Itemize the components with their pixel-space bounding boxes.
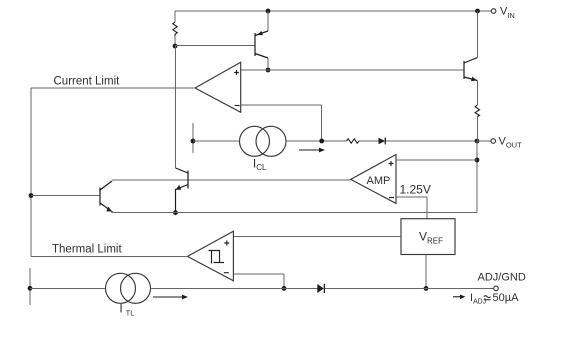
svg-text:ADJ/GND: ADJ/GND <box>478 272 526 284</box>
node U3 minus junction dot <box>282 286 287 291</box>
op-amp U1 current limit comparator <box>195 62 241 112</box>
wire D2 to ADJ terminal <box>324 287 493 289</box>
node Q1 collector junction dot <box>266 68 271 73</box>
resistor R2 <box>347 139 359 143</box>
node I_TL stub dot <box>28 286 33 291</box>
node I_CL output junction dot <box>319 139 324 144</box>
svg-text:Current Limit: Current Limit <box>54 76 121 88</box>
wire stub to current source I_TL <box>30 287 106 289</box>
svg-text:AMP: AMP <box>367 175 391 187</box>
wire U1 - input <box>241 104 322 106</box>
node left bus junction dot <box>29 193 34 198</box>
node resistor bottom junction dot <box>173 44 178 49</box>
resistor R1 <box>173 22 177 36</box>
wire AMP - input <box>396 196 427 198</box>
current source I_TL <box>106 273 151 303</box>
terminal V_IN open circle <box>491 9 496 14</box>
symbol approx-equal <box>484 296 491 300</box>
wire D1 to V_OUT node <box>385 140 477 142</box>
node ADJ junction dot <box>424 286 429 291</box>
wire U3 - input <box>233 273 284 275</box>
transistor Q1 (PNP) <box>255 31 268 58</box>
transistor Q4 pass device <box>464 58 477 82</box>
current source I_CL <box>240 126 287 156</box>
wire Q1 collector down to node <box>267 58 269 68</box>
arrow I_TL current direction <box>153 295 188 300</box>
transistor Q2 <box>100 181 112 213</box>
wire top supply rail <box>175 10 478 12</box>
wire V_OUT terminal lead <box>477 140 491 142</box>
wire resistor R1 bottom to node <box>174 36 176 46</box>
wire V_REF left to TL + input <box>233 236 401 238</box>
wire base bus to AMP output <box>112 179 351 181</box>
wire U3 output thermal limit line <box>31 255 187 257</box>
resistor R3 <box>475 105 479 117</box>
node V_OUT junction dot <box>475 139 480 144</box>
wire U1 output (current limit line) <box>31 87 195 89</box>
arrow I_ADJ direction <box>453 295 466 300</box>
wire stub to current source I_CL <box>193 140 240 142</box>
wire I_TL to ADJ line <box>151 287 285 289</box>
block V_REF <box>401 219 455 255</box>
wire from rail down to resistor R1 <box>174 11 176 22</box>
node AMP + junction dot <box>475 158 480 163</box>
wire I_TL left stub <box>29 268 31 305</box>
wire left bus vertical <box>30 88 32 256</box>
diode D2 <box>317 284 324 293</box>
svg-text:ICL: ICL <box>253 156 267 172</box>
wire ADJ line to diode D2 <box>284 287 317 289</box>
wire AMP + input <box>396 159 477 161</box>
wire long vertical node to Q3 collector <box>175 46 177 168</box>
wire Q1 emitter to top rail <box>267 11 269 31</box>
wire R3 to V_OUT node <box>476 117 478 142</box>
terminal V_OUT open circle <box>491 139 496 144</box>
wire I_CL left stub <box>192 123 194 153</box>
svg-text:1.25V: 1.25V <box>400 183 431 197</box>
wire Q4 collector to V_IN rail <box>476 11 478 58</box>
op-amp U2 AMP <box>351 155 396 204</box>
node top rail junction dot <box>266 9 271 14</box>
wire op-amp U1 + input to Q4 base <box>241 69 464 71</box>
svg-text:Thermal Limit: Thermal Limit <box>52 243 122 255</box>
node V_IN junction dot <box>475 9 480 14</box>
wire U3 - input down to ADJ line <box>283 274 285 288</box>
wire left bus to Q2 base <box>31 195 100 197</box>
svg-text:ITL: ITL <box>119 302 134 318</box>
svg-text:VOUT: VOUT <box>499 135 523 149</box>
wire V_OUT node down right side <box>476 141 478 213</box>
wire I_CL to node <box>286 140 347 142</box>
arrow I_CL current direction <box>299 148 325 153</box>
wire U1 - input down to I_CL node <box>321 105 323 141</box>
wire node to Q1 base <box>175 45 255 47</box>
diode D1 <box>379 138 386 145</box>
svg-text:IADJ: IADJ <box>470 292 486 305</box>
wire AMP - input down to V_REF <box>426 197 428 219</box>
wire emitter bus <box>112 212 477 214</box>
node Q3 emitter junction dot <box>173 210 178 215</box>
svg-text:50µA: 50µA <box>493 292 520 304</box>
wire R2 to D1 <box>359 140 379 142</box>
node I_CL stub dot <box>191 139 196 144</box>
wire V_IN terminal lead <box>478 10 492 12</box>
wire V_REF bottom to ADJ line <box>425 255 427 289</box>
transistor Q3 <box>176 168 189 213</box>
comparator U3 thermal limit <box>187 231 233 281</box>
svg-text:VIN: VIN <box>500 6 515 20</box>
wire Q4 emitter to resistor R3 <box>476 81 478 106</box>
terminal ADJ/GND open circle <box>494 286 499 291</box>
